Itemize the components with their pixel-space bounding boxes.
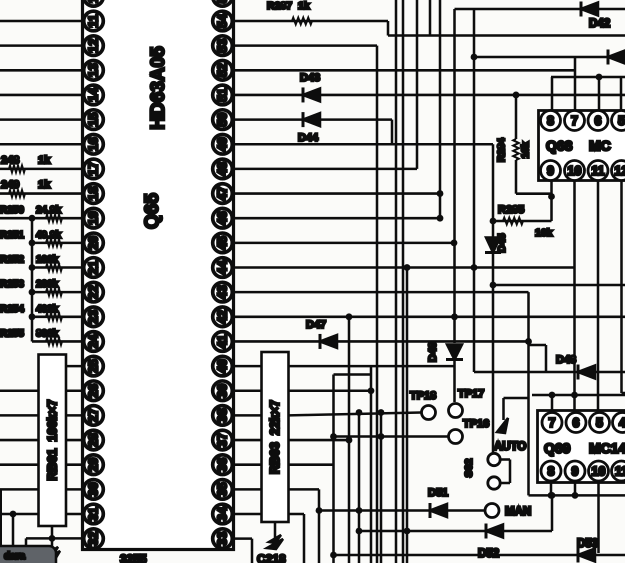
svg-text:248: 248 <box>1 154 19 166</box>
wire R285 row <box>493 220 552 223</box>
Q65 pin 48 <box>213 159 233 179</box>
node R285/v493 <box>490 218 497 225</box>
wire h395 <box>532 394 625 397</box>
Q65 pin 42 <box>213 307 233 327</box>
wire v359 bus <box>358 413 361 563</box>
svg-text:D49: D49 <box>427 342 439 362</box>
Q68 pin 11 <box>588 161 608 181</box>
wire Q65 pin42 <box>234 316 625 319</box>
node bus R254 <box>29 313 36 320</box>
node v474/D42 row <box>471 54 478 61</box>
Q65 pin 47 <box>213 184 233 204</box>
Q68 pin 12 <box>612 161 625 181</box>
svg-text:Q65: Q65 <box>142 193 163 229</box>
resistor R254 <box>46 313 62 320</box>
svg-text:32: 32 <box>87 532 101 546</box>
svg-text:40: 40 <box>216 359 230 373</box>
svg-text:24: 24 <box>87 334 101 348</box>
svg-text:10k: 10k <box>521 141 532 158</box>
Q65 pin 23 <box>84 307 104 327</box>
Q68 pin 6 <box>588 111 608 131</box>
off-page arrow RB03 common <box>267 535 283 549</box>
svg-text:MC14: MC14 <box>589 440 625 456</box>
svg-text:43: 43 <box>216 285 230 299</box>
svg-text:R285: R285 <box>498 204 524 216</box>
Q65 pin 41 <box>213 332 233 352</box>
svg-text:47: 47 <box>216 187 230 201</box>
node D53row/v334 <box>330 552 337 559</box>
wire h495 <box>529 494 625 497</box>
Q65 pin 52 <box>213 61 233 81</box>
svg-text:RB01 100k×7: RB01 100k×7 <box>46 399 60 480</box>
Q65 pin 22 <box>84 282 104 302</box>
wire bus v377 <box>376 46 379 563</box>
svg-text:54: 54 <box>216 14 230 28</box>
svg-text:R287 1k: R287 1k <box>267 0 310 12</box>
Q65 pin 24 <box>84 332 104 352</box>
wire v440 bus <box>439 0 442 218</box>
svg-text:39: 39 <box>216 384 230 398</box>
wire Q69 pin7 stub <box>551 395 554 411</box>
wire RB01 left pin row 28 <box>0 439 39 442</box>
svg-text:8: 8 <box>548 465 555 479</box>
diode D44 <box>303 112 320 127</box>
wire RB01 common stub <box>51 526 54 551</box>
svg-text:23: 23 <box>87 310 101 324</box>
node r44/v474 <box>471 264 478 271</box>
wire Q65 pin 11 <box>0 20 84 23</box>
wire Q65 pin51 <box>234 94 625 97</box>
svg-text:31: 31 <box>87 507 101 521</box>
svg-text:R250: R250 <box>0 205 24 216</box>
svg-text:11: 11 <box>615 465 625 479</box>
node h77/v599 <box>596 74 603 81</box>
wire Q68 pin9 stub <box>550 181 553 222</box>
Q65 pin 31 <box>84 504 104 524</box>
wire v454 column <box>453 243 456 343</box>
svg-text:37: 37 <box>216 433 230 447</box>
Q68 pin 5 <box>612 111 625 131</box>
svg-text:R284: R284 <box>497 138 508 162</box>
Q65 pin 13 <box>84 61 104 81</box>
diode D42 <box>608 50 625 65</box>
wire v334 bus <box>332 375 335 563</box>
Q69 pin 5 <box>590 413 610 433</box>
diode D51 <box>430 503 447 518</box>
wire h345 branch <box>529 344 547 347</box>
svg-text:36: 36 <box>216 458 230 472</box>
wire v430 to top <box>429 0 432 36</box>
node r42/v454 <box>451 313 458 320</box>
Q65 pin 32 <box>84 529 104 549</box>
svg-text:R254: R254 <box>0 304 24 315</box>
Q65 pin 17 <box>84 159 104 179</box>
Q65 pin 45 <box>213 233 233 253</box>
off-page arrow below RB01 <box>45 547 60 561</box>
wire RB01 to Q65 pin 25 <box>66 365 84 368</box>
wire v552 from D52 row <box>551 495 554 531</box>
svg-text:8: 8 <box>547 114 554 128</box>
svg-text:7: 7 <box>571 114 578 128</box>
svg-text:29: 29 <box>87 458 101 472</box>
node r45/v454 <box>451 239 458 246</box>
node D52/v359 cross <box>356 528 363 535</box>
wire Q65 pin49 <box>234 143 494 146</box>
Q65 pin 38 <box>213 406 233 426</box>
wire Q65 pin 20 <box>32 242 84 245</box>
node h395 v574 <box>571 392 578 399</box>
wire Q69 pin9 stub <box>574 483 577 496</box>
Q65 pin 49 <box>213 134 233 154</box>
svg-text:51: 51 <box>216 88 230 102</box>
wire Q65 pin54 <box>234 20 389 23</box>
node bus R250 <box>29 215 36 222</box>
svg-text:28: 28 <box>87 433 101 447</box>
wire v252 down <box>251 539 254 563</box>
svg-text:TP18: TP18 <box>410 390 436 402</box>
switch S02 contact lower <box>488 477 500 489</box>
resistor R284 <box>513 139 519 160</box>
wire S02 wiper arch <box>502 398 505 420</box>
wire Q65 pin 17 <box>0 168 84 171</box>
wire h193.7 <box>516 192 552 195</box>
Q65 pin 53 <box>213 36 233 56</box>
node r47/v440 <box>437 190 444 197</box>
wire Q65 pin52 <box>234 69 576 72</box>
wire h538 to IC <box>26 537 83 540</box>
svg-text:MAN: MAN <box>505 506 531 518</box>
wire h374 branch <box>334 373 372 376</box>
svg-text:19: 19 <box>87 211 101 225</box>
node r38/v359 <box>356 409 363 416</box>
svg-text:AUTO: AUTO <box>494 441 526 453</box>
wire r39 east <box>289 389 372 392</box>
wire Q65 pin48 <box>234 168 418 171</box>
svg-text:R251: R251 <box>0 230 24 241</box>
wire bus v528 <box>527 292 530 495</box>
wire v from h538 <box>25 538 28 563</box>
wire RB01 left pin row 26 <box>0 389 39 392</box>
wire Q65 pin 13 <box>0 69 84 72</box>
wire D53 bottom row <box>334 554 625 557</box>
node bus R252 <box>29 264 36 271</box>
wire v574 Q68 pin10 to Q69 pin6 <box>573 181 576 411</box>
diode D48 <box>578 365 595 380</box>
node h285/v493 <box>490 282 497 289</box>
wire r40 east <box>289 365 455 368</box>
wire r36 east <box>289 463 335 466</box>
Q65 pin 25 <box>84 356 104 376</box>
wire RB01 to Q65 pin 29 <box>66 463 84 466</box>
Q65 pin 44 <box>213 258 233 278</box>
node r41/v528 <box>525 338 532 345</box>
wire down from row31 node <box>12 514 15 563</box>
Q68 pin 9 <box>541 161 561 181</box>
Q65 pin 34 <box>213 504 233 524</box>
wire Q65 pin 34 to RB03 <box>234 513 262 516</box>
wire RB01 left pin row 27 <box>0 414 39 417</box>
IC Q68 body <box>539 111 625 181</box>
node TP16/v381 <box>378 433 385 440</box>
wire Q69 pin8 stub <box>550 483 553 496</box>
diode D45 <box>485 238 501 253</box>
wire Q65 pin 22 <box>32 291 84 294</box>
Q69 pin 4 <box>613 413 625 433</box>
wire D42 row <box>474 56 610 59</box>
svg-text:35: 35 <box>216 482 230 496</box>
svg-text:10: 10 <box>592 465 606 479</box>
svg-text:D51: D51 <box>428 487 448 499</box>
Q65 pin 37 <box>213 430 233 450</box>
node pin9 net <box>548 193 555 200</box>
wire v304 <box>303 514 306 563</box>
svg-text:53: 53 <box>216 39 230 53</box>
node TP16 feed <box>330 433 337 440</box>
svg-text:22: 22 <box>87 285 101 299</box>
resistor R255 <box>46 338 62 345</box>
test point TP18 <box>422 406 436 420</box>
svg-text:402k: 402k <box>36 304 59 315</box>
svg-text:C218: C218 <box>257 552 286 563</box>
wire h77 <box>551 76 625 79</box>
Q65 pin 33 <box>213 529 233 549</box>
Q65 pin 55 <box>213 0 233 6</box>
node r39/v371 <box>368 387 375 394</box>
svg-text:dara: dara <box>4 551 26 562</box>
wire bus left resistor common <box>31 218 34 341</box>
wire RB01 to Q65 pin 26 <box>66 389 84 392</box>
resistor R250 <box>46 215 62 222</box>
svg-text:R252: R252 <box>0 255 24 266</box>
node RB01 common <box>49 535 56 542</box>
label MAN circle <box>485 504 499 518</box>
svg-text:10: 10 <box>568 164 582 178</box>
wire Q65 pin33 east <box>234 537 253 540</box>
svg-text:49.9k: 49.9k <box>36 230 61 241</box>
svg-text:200k: 200k <box>36 279 59 290</box>
wire r37 east <box>289 439 350 442</box>
svg-text:1k: 1k <box>38 154 51 166</box>
switch S02 wiper arrow <box>497 418 508 433</box>
wire Q65 pin 36 to RB03 <box>234 463 262 466</box>
svg-text:D42: D42 <box>589 18 610 30</box>
watermark box <box>0 546 56 563</box>
svg-text:25: 25 <box>87 359 101 373</box>
diode D43 <box>303 87 320 102</box>
node bus R253 <box>29 289 36 296</box>
wire Q65 pin45 <box>234 242 455 245</box>
wire RB01 left pin row 29 <box>0 463 39 466</box>
node r51/v516 <box>513 92 520 99</box>
Q65 pin 43 <box>213 282 233 302</box>
svg-text:18: 18 <box>87 187 101 201</box>
wire Q65 pin 15 <box>0 118 84 121</box>
wire Q65 pin 24 <box>32 340 84 343</box>
node h495 pin9 <box>572 492 579 499</box>
svg-text:6: 6 <box>573 416 580 430</box>
wire v575 Q68 pin7 <box>574 57 577 111</box>
wire v319 bus <box>318 489 321 563</box>
svg-text:15: 15 <box>87 113 101 127</box>
svg-text:D44: D44 <box>298 132 319 144</box>
svg-text:24.9k: 24.9k <box>36 205 61 216</box>
wire Q65 pin 37 to RB03 <box>234 439 262 442</box>
Q65 pin 21 <box>84 258 104 278</box>
svg-text:TP17: TP17 <box>458 388 484 400</box>
wire RB01 to Q65 pin 30 <box>66 488 84 491</box>
svg-text:D47: D47 <box>306 319 326 331</box>
svg-text:100k: 100k <box>36 255 59 266</box>
test point TP17 <box>449 404 463 418</box>
wire r34 east <box>289 513 305 516</box>
wire RB03 common stub <box>274 522 277 540</box>
wire v396 top to bottom <box>395 0 398 563</box>
wire r54 jog <box>387 21 390 36</box>
svg-text:30: 30 <box>87 482 101 496</box>
svg-text:41: 41 <box>216 334 230 348</box>
Q65 pin 29 <box>84 455 104 475</box>
svg-text:21: 21 <box>87 261 101 275</box>
svg-text:16: 16 <box>87 137 101 151</box>
wire v598 Q68 pin11 to Q69 pin5 <box>597 181 600 411</box>
diode D52 <box>486 524 503 539</box>
svg-text:6: 6 <box>595 114 602 128</box>
svg-text:10: 10 <box>87 0 101 3</box>
node D52/v407 <box>404 528 411 535</box>
Q69 pin 7 <box>542 413 562 433</box>
wire v516 R284 <box>515 95 518 139</box>
wire v599 Q68 pin6 <box>598 77 601 111</box>
Q69 pin 8 <box>541 461 561 481</box>
node h395 pin7 <box>549 392 556 399</box>
wire Q65 pin47 <box>234 192 441 195</box>
Q65 pin 15 <box>84 110 104 130</box>
svg-text:45: 45 <box>216 236 230 250</box>
wire Q65 pin41 <box>234 340 529 343</box>
switch S02 contact auto <box>488 453 500 465</box>
node h495 pin8 <box>548 492 555 499</box>
wire RB01 to Q65 pin 31 <box>66 513 84 516</box>
wire v349 bus <box>348 317 351 563</box>
wire Q65 pin 40 to RB03 <box>234 365 262 368</box>
node r46/v440 <box>437 215 444 222</box>
wire Q65 pin46 <box>234 217 441 220</box>
svg-text:17: 17 <box>87 162 101 176</box>
svg-text:RB03 22k×7: RB03 22k×7 <box>268 400 282 474</box>
Q68 pin 10 <box>565 161 585 181</box>
Q65 pin 12 <box>84 36 104 56</box>
diode D49 <box>446 345 463 360</box>
svg-text:TP16: TP16 <box>463 418 489 430</box>
svg-text:D53: D53 <box>577 538 598 550</box>
wire v552 Q68 pin8 <box>551 77 554 111</box>
wire r38 east to TP18 <box>289 413 422 416</box>
resistor R287 <box>292 18 312 25</box>
node r44/v407 <box>404 264 411 271</box>
Q65 pin 10 <box>84 0 104 6</box>
node row31 junction <box>10 511 17 518</box>
svg-text:D48: D48 <box>556 354 576 366</box>
wire v546 to D48 row <box>545 345 548 372</box>
wire v407 <box>406 268 409 563</box>
wire Q65 pin 39 to RB03 <box>234 389 262 392</box>
resistor R253 <box>46 289 62 296</box>
wire Q65 pin 21 <box>32 266 84 269</box>
svg-text:7: 7 <box>549 416 556 430</box>
wire D51 row <box>319 509 485 512</box>
Q65 pin 39 <box>213 381 233 401</box>
svg-text:9: 9 <box>547 164 554 178</box>
Q65 pin 30 <box>84 480 104 500</box>
svg-text:42: 42 <box>216 310 230 324</box>
wire v371 bus <box>370 366 373 563</box>
svg-text:12: 12 <box>87 39 101 53</box>
resistor network RB03 body <box>262 352 289 522</box>
svg-text:5: 5 <box>618 114 625 128</box>
wire Q65 pin 35 to RB03 <box>234 488 262 491</box>
svg-text:R255: R255 <box>0 328 24 339</box>
svg-text:48: 48 <box>216 162 230 176</box>
diode D47 <box>320 334 337 349</box>
wire Q65 pin 18 <box>0 192 84 195</box>
switch S02 bracket <box>501 458 511 461</box>
wire Q69 pin10 down <box>597 483 600 554</box>
svg-text:26: 26 <box>87 384 101 398</box>
Q65 pin 46 <box>213 208 233 228</box>
resistor R249 <box>9 190 25 197</box>
Q65 pin 36 <box>213 455 233 475</box>
test point TP16 <box>449 430 463 444</box>
wire h285 to east edge <box>493 284 625 287</box>
svg-text:11: 11 <box>87 14 101 27</box>
wire Q65 pin 23 <box>32 316 84 319</box>
svg-text:MC: MC <box>589 138 611 154</box>
wire v417 to top <box>416 0 419 169</box>
Q65 pin 35 <box>213 480 233 500</box>
svg-text:249: 249 <box>1 179 19 191</box>
svg-text:5: 5 <box>596 416 603 430</box>
Q65 pin 18 <box>84 184 104 204</box>
node r38/v381 <box>378 409 385 416</box>
wire top-right h9 <box>455 8 625 11</box>
diode D41 top right <box>581 2 598 17</box>
wire v381 bus <box>380 413 383 563</box>
wire r50 jog down <box>391 120 394 145</box>
svg-text:49: 49 <box>216 137 230 151</box>
svg-text:D43: D43 <box>300 72 320 84</box>
svg-text:1k: 1k <box>38 179 51 191</box>
wire Q65 pin 12 <box>0 44 84 47</box>
wire v621 Q68 pin5 <box>620 77 623 111</box>
wire Q65 pin 14 <box>0 94 84 97</box>
svg-text:33: 33 <box>216 532 230 546</box>
wire v403 bus <box>402 0 405 563</box>
svg-text:34: 34 <box>216 507 230 521</box>
svg-text:50: 50 <box>216 113 230 127</box>
resistor R252 <box>46 264 62 271</box>
wire RB01 left pin row 30 <box>0 488 39 491</box>
IC Q69 body <box>538 411 625 483</box>
svg-text:10k: 10k <box>535 227 553 239</box>
svg-text:46: 46 <box>216 211 230 225</box>
svg-text:4: 4 <box>619 416 625 430</box>
Q65 pin 11 <box>84 11 104 31</box>
Q69 pin 6 <box>566 413 586 433</box>
Q68 pin 7 <box>565 111 585 131</box>
Q65 pin 19 <box>84 208 104 228</box>
svg-text:12: 12 <box>615 164 625 178</box>
wire Q65 pin44 <box>234 266 576 269</box>
